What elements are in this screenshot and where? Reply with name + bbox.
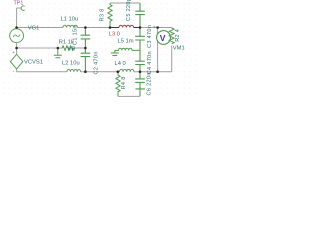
- svg-text:L1 10u: L1 10u: [61, 16, 79, 22]
- capacitor C5: [135, 3, 145, 28]
- svg-text:R2 4: R2 4: [175, 29, 181, 42]
- svg-text:C1 15n: C1 15n: [72, 25, 78, 45]
- resistor R1: [62, 46, 75, 50]
- resistor R3: [108, 3, 112, 28]
- svg-text:C4 470n: C4 470n: [147, 51, 153, 74]
- svg-text:C5 220p: C5 220p: [126, 0, 132, 21]
- inductor L5: [115, 48, 140, 50]
- wire: bottom rail y=71.7 left segment: [17, 71, 67, 73]
- capacitor C6: [135, 72, 145, 89]
- wire: top rail L1 to R3 node: [77, 27, 110, 29]
- svg-text:V: V: [160, 33, 166, 43]
- inductor L2: [67, 70, 81, 72]
- ground at C6 bottom: [135, 89, 145, 96]
- voltmeter VM1 body: [157, 31, 171, 45]
- wire: net VB horizontal y=48: [17, 47, 62, 49]
- svg-text:C6 220n: C6 220n: [147, 72, 153, 95]
- capacitor C3: [135, 28, 145, 51]
- inductor L3 (selected, red): [119, 25, 134, 27]
- wire: top rail y=27.5 from VG1 to L1: [17, 27, 63, 29]
- svg-text:+: +: [12, 50, 15, 55]
- wire: VCVS1 bottom lead: [16, 69, 18, 72]
- wire: TP1 stub from test point down to top rail: [17, 8, 22, 28]
- svg-text:L5 1m: L5 1m: [118, 39, 134, 45]
- capacitor C2: [81, 48, 91, 72]
- svg-text:VM1: VM1: [173, 45, 185, 51]
- svg-text:L3 0: L3 0: [109, 32, 120, 38]
- wire: bypass rail y=3 over L3: [110, 2, 140, 4]
- svg-text:C2 470n: C2 470n: [94, 51, 100, 74]
- svg-text:VB: VB: [68, 46, 76, 52]
- wire: VG1 bottom lead to node: [16, 43, 18, 55]
- svg-text:TP1: TP1: [14, 0, 24, 6]
- wire: R1 right lead to C1/C2 node: [73, 47, 86, 49]
- wire: top rail node C5 to R2 corner: [140, 27, 172, 29]
- ground at R1 left: [54, 48, 62, 58]
- capacitor C1: [81, 28, 91, 49]
- svg-text:R4 8: R4 8: [121, 76, 127, 89]
- svg-text:+: +: [153, 25, 156, 30]
- wire: R4 bottom to C6 ground node: [118, 95, 140, 97]
- svg-text:R3 8: R3 8: [100, 8, 106, 21]
- resistor R4: [116, 72, 120, 97]
- svg-text:L4 0: L4 0: [115, 61, 126, 67]
- wire: red net segment L3 to C5 node: [134, 27, 140, 29]
- source VCVS1 diamond: [10, 54, 22, 69]
- junction dots: [15, 26, 159, 73]
- resistor R2: [169, 28, 174, 44]
- voltmeter VM1 leads: [158, 28, 172, 72]
- svg-text:VG1: VG1: [28, 25, 40, 31]
- test point TP1 hook: [21, 6, 24, 10]
- wire: bottom rail L4 to VM corner: [134, 71, 158, 73]
- ground at L5 left: [111, 50, 119, 55]
- capacitor C4: [135, 50, 145, 71]
- inductor L1: [63, 25, 77, 27]
- svg-text:VCVS1: VCVS1: [24, 59, 43, 65]
- wire: bottom rail L2 to L4: [81, 71, 120, 73]
- inductor L4: [120, 69, 134, 71]
- svg-text:L2 10u: L2 10u: [62, 61, 80, 67]
- wire: red net segment into L3: [110, 27, 119, 29]
- source VG1 circle with sine: [10, 29, 24, 43]
